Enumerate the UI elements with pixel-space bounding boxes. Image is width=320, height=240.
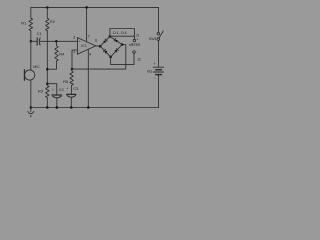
capacitor C3 xyxy=(67,93,76,95)
wire node to C2 xyxy=(47,84,57,95)
wire J2 to bridge bottom xyxy=(111,53,134,64)
svg-text:-: - xyxy=(155,75,157,80)
node C2 rail xyxy=(56,106,59,109)
svg-text:7: 7 xyxy=(88,34,91,39)
svg-text:+: + xyxy=(66,87,68,91)
node bridge top vertex xyxy=(109,35,112,38)
node bridge left vertex xyxy=(99,45,102,48)
diode D1 (upper-left bridge edge) xyxy=(100,36,110,46)
svg-text:R4: R4 xyxy=(59,51,65,56)
node feedback junction (R2/R4) xyxy=(46,68,49,71)
node bridge bottom vertex xyxy=(109,56,112,59)
microphone MIC xyxy=(30,41,32,70)
svg-text:-: - xyxy=(79,48,81,53)
capacitor C2 xyxy=(52,94,62,96)
wire bottom rail xyxy=(31,107,159,109)
wire top rail V+ xyxy=(31,6,159,8)
svg-text:6: 6 xyxy=(95,37,98,42)
diode D3 (lower-left bridge edge) xyxy=(100,46,110,57)
switch SW1 xyxy=(157,32,160,35)
svg-text:4: 4 xyxy=(89,51,92,56)
node R4 tap xyxy=(55,40,58,43)
svg-text:J2: J2 xyxy=(137,57,141,61)
resistor R4 xyxy=(47,41,58,69)
wire pin 2 to feedback xyxy=(72,50,77,69)
op-amp U1 IC1 xyxy=(77,38,95,55)
wire op-amp output xyxy=(96,45,100,47)
pin 7 wire xyxy=(86,7,88,41)
svg-text:3: 3 xyxy=(73,34,76,39)
pin 4 wire xyxy=(87,50,89,108)
terminal J1 xyxy=(133,39,136,42)
wire feedback to bridge (net2) xyxy=(72,45,126,70)
wire right column top (rail to switch) xyxy=(158,7,160,32)
svg-text:+: + xyxy=(136,38,139,42)
node R5 top xyxy=(71,68,74,71)
node top rail / R2 xyxy=(46,6,49,9)
svg-text:C2: C2 xyxy=(59,87,65,92)
wire C1 to pin3 xyxy=(40,40,78,42)
svg-text:+: + xyxy=(153,61,156,66)
wire box to J1 xyxy=(133,36,135,39)
diode D2 (upper-right bridge edge) xyxy=(110,36,122,44)
D1-D4 label box xyxy=(110,29,134,37)
svg-text:R3: R3 xyxy=(38,89,44,94)
resistor R2 xyxy=(46,8,50,31)
capacitor C1 xyxy=(31,40,37,42)
wire R2 bottom feedback column xyxy=(46,31,48,84)
svg-text:SW1: SW1 xyxy=(149,37,157,41)
resistor R3 xyxy=(46,84,50,108)
svg-text:D1-D4: D1-D4 xyxy=(113,30,128,35)
svg-text:+: + xyxy=(52,88,54,92)
svg-text:-: - xyxy=(137,50,139,54)
resistor R1 xyxy=(29,7,32,41)
terminal J2 xyxy=(133,51,136,54)
svg-text:B1: B1 xyxy=(147,69,153,74)
node bridge right vertex xyxy=(121,43,124,46)
svg-text:MIC: MIC xyxy=(33,65,40,69)
svg-text:C1: C1 xyxy=(37,31,43,36)
svg-text:METER: METER xyxy=(129,43,141,47)
svg-text:IC1: IC1 xyxy=(81,44,87,48)
node A (R1/C1/mic junction) xyxy=(30,40,32,43)
diode D4 (lower-right bridge edge) xyxy=(111,45,123,57)
svg-text:R1: R1 xyxy=(21,20,27,25)
svg-text:2: 2 xyxy=(73,49,76,54)
node R3 rail xyxy=(46,106,49,109)
wire switch to battery xyxy=(157,40,159,67)
ground xyxy=(30,106,32,109)
node R3/C2 junction xyxy=(46,82,49,85)
resistor R5 xyxy=(70,69,74,94)
svg-text:R2: R2 xyxy=(50,19,56,24)
svg-text:C3: C3 xyxy=(73,86,79,91)
wire right column bottom (battery to rail) xyxy=(158,75,160,108)
svg-text:R5: R5 xyxy=(63,79,69,84)
node C3 rail xyxy=(70,106,73,109)
